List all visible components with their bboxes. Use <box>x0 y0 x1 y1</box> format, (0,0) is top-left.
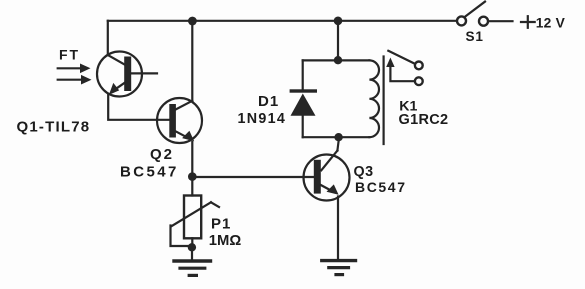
node junction dot on rail above relay <box>334 17 343 26</box>
wire D1/K1 bottom horizontal <box>303 136 370 138</box>
transistor Q2 body <box>157 98 202 143</box>
wire Q3 emitter to ground <box>337 197 339 259</box>
relay contact terminal lower <box>415 77 423 85</box>
transistor Q3 base bar <box>314 160 321 194</box>
svg-text:1MΩ: 1MΩ <box>209 233 242 249</box>
wire Q2 emitter down to node <box>191 142 193 177</box>
switch S1 blade <box>465 2 485 17</box>
transistor Q2 base bar <box>169 104 176 138</box>
potentiometer P1 body <box>184 196 201 239</box>
relay contact blade <box>388 51 414 64</box>
node junction dot on D1/K1 top wire <box>334 56 342 64</box>
svg-text:BC547: BC547 <box>120 163 179 180</box>
switch S1 terminal left <box>457 16 466 25</box>
relay contact actuation arrow <box>390 64 414 81</box>
wire rail dot down to D1/K1 top <box>337 21 339 60</box>
wire Q1 collector to rail <box>107 21 109 55</box>
svg-text:Q3: Q3 <box>354 164 374 180</box>
wire Q1 emitter to Q2 base <box>108 95 169 120</box>
relay K1 core line <box>383 57 385 145</box>
transistor Q1 phototransistor body <box>97 52 142 97</box>
node junction dot below P1 <box>188 243 196 251</box>
diode D1 cathode bar <box>290 89 317 92</box>
transistor Q2 collector lead <box>176 101 193 110</box>
relay K1 coil <box>369 60 379 137</box>
wire P1 wiper return <box>171 226 189 247</box>
relay contact terminal upper <box>415 62 423 70</box>
svg-text:P1: P1 <box>211 216 231 233</box>
ground symbol below Q3 <box>322 259 356 262</box>
wire K1/D1 bottom node down to Q3 collector <box>337 141 338 151</box>
wire node to Q3 base <box>192 176 313 178</box>
svg-text:Q2: Q2 <box>150 146 174 163</box>
switch S1 terminal right <box>479 17 488 26</box>
node junction dot on rail above Q2 <box>188 17 197 26</box>
FT light arrow 2 <box>58 79 84 81</box>
transistor Q3 emitter lead with arrow <box>321 185 331 191</box>
wire Q2 collector to rail dot <box>191 21 193 101</box>
transistor Q3 collector lead <box>321 151 337 171</box>
svg-text:G1RC2: G1RC2 <box>399 112 449 128</box>
ground symbol below P1 <box>174 259 211 262</box>
node junction dot at Q2 emitter / P1 / Q3 base <box>188 172 197 181</box>
transistor Q1 base lead (unconnected) <box>131 72 157 74</box>
wire P1 bottom to node <box>191 238 193 250</box>
wire D1 top lead <box>302 60 304 89</box>
wire D1/K1 top horizontal <box>303 59 370 61</box>
svg-text:FT: FT <box>59 47 80 63</box>
FT light arrow 1 <box>58 67 83 69</box>
transistor Q1 collector lead <box>108 55 125 65</box>
transistor Q1 base bar <box>124 57 131 92</box>
diode D1 anode triangle <box>291 94 316 116</box>
svg-text:BC547: BC547 <box>355 179 407 195</box>
transistor Q2 emitter lead with arrow <box>176 131 187 137</box>
svg-text:Q1-TIL78: Q1-TIL78 <box>17 118 91 135</box>
potentiometer P1 wiper arrow <box>171 202 211 226</box>
wire top supply rail <box>108 20 457 22</box>
wire node down to P1 <box>191 177 193 196</box>
wire node to ground <box>191 251 193 259</box>
transistor Q1 emitter lead with arrow <box>113 83 125 91</box>
+12V plus sign <box>521 21 535 23</box>
transistor Q3 body <box>304 155 350 201</box>
svg-text:D1: D1 <box>258 93 279 110</box>
wire S1 to +12V <box>489 20 513 22</box>
svg-text:1N914: 1N914 <box>238 111 287 127</box>
wire D1 bottom lead <box>302 116 304 137</box>
node junction dot on D1/K1 bottom wire <box>334 133 342 141</box>
svg-text:S1: S1 <box>466 29 484 44</box>
svg-text:12 V: 12 V <box>536 15 566 30</box>
